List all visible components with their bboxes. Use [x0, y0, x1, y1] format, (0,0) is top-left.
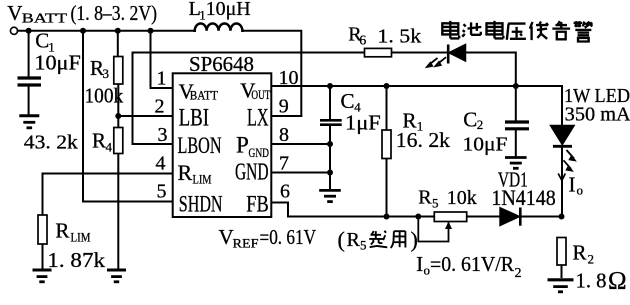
svg-text:V: V — [7, 1, 22, 25]
svg-text:=0. 61V/R: =0. 61V/R — [430, 252, 514, 276]
svg-text:V: V — [219, 225, 234, 249]
svg-text:=0. 61V: =0. 61V — [260, 225, 317, 249]
wire pin2 stub — [118, 115, 172, 117]
resistor R6 — [365, 48, 392, 56]
svg-text:43. 2k: 43. 2k — [24, 132, 79, 154]
ground under R4 — [107, 270, 126, 282]
svg-text:SP6648: SP6648 — [189, 52, 254, 76]
svg-text:LIM: LIM — [193, 172, 212, 187]
char jing3 — [574, 21, 593, 41]
svg-text:8: 8 — [279, 124, 289, 146]
svg-text:9: 9 — [279, 96, 289, 118]
wire pin4 line RLIM — [43, 174, 173, 216]
wire FB: pin6 stub, riser, line — [271, 203, 561, 217]
potentiometer R5 — [434, 212, 466, 222]
wire SHDN riser / pin5 stub — [83, 31, 173, 202]
svg-text:Ω: Ω — [608, 268, 627, 295]
inductor L1 — [195, 23, 243, 30]
svg-text:10μF: 10μF — [463, 134, 508, 156]
svg-text:5: 5 — [360, 238, 367, 253]
resistor RLIM — [38, 215, 47, 244]
1W LED glow arrows — [564, 150, 575, 169]
svg-text:LX: LX — [247, 105, 269, 132]
warning LED glow arrows — [428, 57, 446, 65]
svg-text:OUT: OUT — [251, 88, 270, 102]
svg-text:C: C — [463, 108, 477, 132]
svg-text:10k: 10k — [447, 187, 478, 209]
svg-text:o: o — [577, 183, 584, 198]
ground under R2 — [548, 280, 574, 292]
svg-text:2: 2 — [155, 96, 165, 118]
svg-text:R: R — [92, 129, 106, 153]
svg-text:7: 7 — [279, 153, 289, 175]
svg-text:C: C — [341, 89, 355, 113]
input terminal — [10, 27, 17, 34]
wire pin1 riser — [151, 31, 173, 88]
svg-text:FB: FB — [246, 191, 268, 216]
svg-text:1. 8: 1. 8 — [576, 269, 607, 293]
svg-text:REF: REF — [233, 237, 259, 251]
ground under C4 / pins 7-8 — [319, 190, 341, 201]
svg-text:C: C — [35, 29, 49, 53]
wire R5 wiper return — [418, 217, 448, 242]
wire LBON line — [133, 52, 516, 54]
svg-text:GND: GND — [249, 145, 270, 160]
char chi2 — [462, 22, 481, 36]
svg-text:(: ( — [338, 227, 345, 252]
svg-text:16. 2k: 16. 2k — [396, 128, 450, 152]
diode VD1 1N4148 — [500, 208, 520, 226]
char xuan3 — [369, 231, 387, 248]
ground under RLIM — [33, 270, 52, 282]
svg-text:LBON: LBON — [178, 133, 222, 158]
wire C2 — [515, 86, 517, 156]
wire C4 chain — [329, 86, 331, 190]
svg-text:10μH: 10μH — [206, 0, 251, 20]
svg-text:LBI: LBI — [179, 105, 210, 132]
svg-text:R: R — [178, 160, 193, 185]
warning LED (battery low) — [447, 45, 450, 64]
capacitor C4 — [320, 120, 342, 124]
svg-text:5: 5 — [157, 181, 167, 203]
resistor R3 — [114, 57, 123, 85]
Chinese text: battery voltage low warning (drawn strokes) — [442, 21, 592, 42]
wire LED branch — [561, 86, 563, 217]
char di1 — [530, 22, 548, 41]
svg-text:1. 5k: 1. 5k — [377, 26, 422, 48]
svg-text:R: R — [573, 240, 587, 264]
wire R1 top and bottom — [386, 86, 388, 217]
resistor R1 — [382, 130, 391, 159]
svg-text:I: I — [416, 252, 423, 276]
wire R3 top — [117, 31, 119, 57]
svg-text:BATT: BATT — [190, 89, 218, 103]
svg-text:1. 87k: 1. 87k — [47, 248, 105, 272]
svg-text:2: 2 — [477, 117, 484, 132]
svg-text:5: 5 — [432, 195, 439, 210]
wire warning riser — [515, 53, 517, 87]
svg-text:LIM: LIM — [71, 231, 91, 245]
wire R3 bottom to R4 top — [117, 84, 119, 128]
capacitor C2 — [505, 122, 529, 129]
ground under C1 — [19, 116, 39, 128]
svg-text:10μF: 10μF — [34, 50, 80, 74]
svg-text:R: R — [418, 187, 432, 209]
wire pin9 stub — [271, 115, 301, 117]
svg-text:1N4148: 1N4148 — [491, 185, 555, 210]
svg-text:6: 6 — [359, 34, 366, 49]
svg-text:4: 4 — [106, 139, 113, 154]
char yong4 — [391, 231, 406, 248]
capacitor C1 — [18, 78, 42, 85]
char dian2 — [487, 21, 504, 39]
ground under C2 — [505, 158, 527, 169]
svg-text:BATT: BATT — [22, 11, 69, 26]
svg-text:): ) — [411, 227, 418, 252]
svg-text:2: 2 — [515, 266, 522, 281]
char ya1 — [507, 24, 526, 40]
char gao4 — [552, 21, 570, 39]
svg-text:R: R — [55, 218, 69, 242]
resistor R2 — [557, 238, 566, 266]
svg-text:(1. 8–3. 2V): (1. 8–3. 2V) — [71, 1, 158, 25]
wire pin8 stub — [271, 143, 330, 145]
wire R4 bottom to ground — [117, 154, 119, 270]
svg-text:350 mA: 350 mA — [565, 103, 630, 125]
Io current arrow on wire — [558, 174, 565, 181]
svg-text:GND: GND — [235, 160, 269, 186]
resistor R4 — [114, 128, 123, 154]
svg-text:1: 1 — [157, 68, 167, 90]
IC SP6648 box — [173, 73, 272, 217]
svg-text:6: 6 — [280, 181, 290, 203]
svg-text:R: R — [347, 229, 361, 251]
Chinese text: (R5 optional) xuan yong — [369, 231, 405, 248]
svg-text:100k: 100k — [85, 83, 124, 107]
1W LED — [551, 126, 575, 145]
wire C1 — [28, 31, 30, 115]
wire LBON riser / pin3 stub — [133, 53, 173, 145]
char dian1 — [442, 21, 459, 39]
svg-text:P: P — [236, 133, 249, 158]
R5 wiper arrow — [448, 222, 450, 228]
svg-text:3: 3 — [158, 124, 168, 146]
wire L1 to LX riser — [242, 31, 301, 116]
svg-text:10: 10 — [279, 67, 299, 89]
svg-text:SHDN: SHDN — [179, 191, 223, 216]
wire R2 bottom — [561, 265, 563, 277]
svg-text:4: 4 — [156, 153, 166, 175]
wire pin7 stub — [271, 172, 330, 174]
wire VOUT line — [271, 85, 562, 87]
svg-text:2: 2 — [588, 251, 595, 266]
wire VBATT rail — [18, 30, 195, 32]
wire RLIM bottom — [42, 244, 44, 269]
svg-text:I: I — [569, 173, 576, 197]
svg-text:3: 3 — [103, 66, 110, 81]
svg-text:1μF: 1μF — [345, 111, 381, 135]
